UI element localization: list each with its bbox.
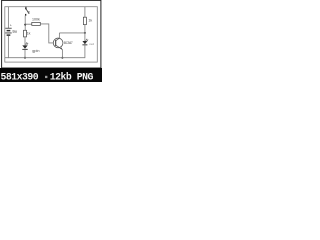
wire collector bus: [59, 32, 85, 34]
resistor R1 1k (left): [24, 30, 27, 37]
node junction switch/base: [24, 24, 26, 26]
wire LED1 to ground rail: [24, 50, 26, 58]
caption bar: [0, 68, 102, 82]
svg-text:1k: 1k: [27, 31, 31, 35]
wire junction to 100k: [25, 23, 32, 25]
node bus/right branch: [84, 32, 86, 34]
schematic border box: [5, 7, 98, 62]
transistor Q1 BC547: [53, 38, 63, 50]
svg-text:gpin: gpin: [32, 49, 39, 53]
node LED1/rail: [24, 57, 26, 59]
wire R3 to bus node: [84, 25, 86, 41]
svg-text:+: +: [10, 23, 12, 27]
svg-text:1k: 1k: [88, 19, 92, 23]
wire R1 to LED1: [24, 37, 26, 46]
svg-text:12kb PNG: 12kb PNG: [50, 71, 94, 82]
wire switch to junction: [24, 16, 26, 31]
battery B1 9v: [5, 28, 11, 36]
svg-text:581x390: 581x390: [1, 71, 39, 82]
outer thumbnail frame: [2, 0, 101, 68]
wire battery top: [7, 7, 9, 28]
svg-text:9v: 9v: [12, 29, 17, 34]
resistor R3 1k (right): [83, 17, 86, 24]
node emitter/rail: [61, 57, 63, 59]
switch S1: [25, 7, 30, 16]
wire battery bottom: [7, 36, 9, 58]
wire collector up: [58, 33, 60, 38]
caption separator dot: [45, 76, 47, 78]
svg-text:BC547: BC547: [64, 41, 73, 45]
wire top rail to R3: [84, 7, 86, 17]
wire LED2 to rail: [84, 45, 86, 58]
LED D2 red: [82, 39, 88, 46]
LED D1: [22, 42, 28, 50]
resistor R2 100k: [32, 22, 41, 25]
svg-text:100k: 100k: [32, 17, 40, 21]
wire ground rail: [5, 57, 85, 59]
wire emitter down: [61, 49, 63, 58]
svg-text:red: red: [90, 42, 95, 46]
wire 100k to base corner: [40, 24, 53, 43]
